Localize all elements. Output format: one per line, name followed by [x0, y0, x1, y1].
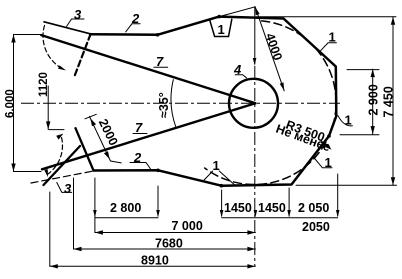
R3500 leader arrow	[321, 141, 330, 149]
wire lower tangent line 7	[42, 103, 255, 169]
angle arc 35deg	[171, 80, 176, 128]
svg-text:4000: 4000	[263, 31, 285, 62]
node V10 dot	[156, 169, 160, 173]
top stub arc arrowhead	[58, 65, 66, 70]
svg-text:6.000: 6.000	[5, 89, 17, 118]
dimension row 7000	[95, 232, 256, 234]
callout 1 top trapezoid	[210, 19, 232, 36]
svg-text:2000: 2000	[96, 117, 121, 148]
svg-text:2050: 2050	[302, 220, 330, 234]
loop outline polygon	[90, 17, 336, 186]
svg-text:8910: 8910	[141, 254, 169, 268]
callout 1 bottom-mid legs	[203, 171, 235, 185]
wire upper tangent line 7	[41, 35, 255, 103]
callout 2 bottom leader	[130, 163, 152, 171]
callout 1 right leader	[338, 116, 352, 126]
thin line V2 to apex	[219, 7, 255, 17]
dimension row 8910	[50, 265, 256, 267]
dimension 2900 vertical	[372, 69, 374, 134]
dashed turning circle R3500	[205, 21, 336, 185]
node V9 dot	[220, 184, 224, 188]
wire vertical center line	[254, 7, 256, 64]
svg-text:7680: 7680	[155, 237, 183, 251]
svg-text:≈35°: ≈35°	[157, 92, 171, 118]
svg-text:2: 2	[133, 150, 142, 165]
bottom extension lines	[94, 178, 96, 233]
svg-text:4: 4	[233, 62, 242, 77]
svg-text:1: 1	[218, 22, 225, 37]
svg-text:7: 7	[156, 54, 164, 69]
svg-text:3: 3	[64, 181, 72, 196]
svg-text:1: 1	[329, 30, 336, 45]
top stub dashed arc	[43, 26, 64, 70]
svg-text:2 800: 2 800	[110, 201, 141, 215]
svg-text:7: 7	[135, 120, 143, 135]
svg-text:1: 1	[213, 158, 220, 173]
R4000 arrow top	[255, 7, 260, 15]
dimension row 2800	[95, 217, 158, 219]
svg-text:1450: 1450	[224, 201, 252, 215]
node V6 dot	[327, 134, 331, 138]
dimension row 1450 1450 2050	[222, 217, 338, 219]
dimension 6000 vertical	[13, 35, 15, 172]
wire horizontal center line	[21, 102, 340, 104]
callout 7 bottom shelf	[133, 133, 147, 135]
svg-text:2 050: 2 050	[298, 201, 329, 215]
bottom stub 45 deg edge	[44, 146, 81, 185]
callout 4 leader	[235, 75, 246, 78]
callout 2 top leader	[126, 24, 140, 32]
svg-text:2 900: 2 900	[367, 84, 381, 115]
dimension 7450 vertical	[392, 17, 394, 186]
bottom stub dashed shallow line 3	[31, 171, 94, 183]
svg-text:3: 3	[74, 7, 82, 22]
dimension row 7680	[74, 248, 256, 250]
callout 7 top shelf	[154, 66, 168, 68]
dimension R4000 line	[255, 7, 284, 91]
bottom stub dashed arc	[47, 137, 62, 175]
callout 3 top leader	[67, 19, 85, 27]
svg-text:1: 1	[325, 155, 332, 170]
svg-text:1450: 1450	[258, 201, 286, 215]
top stub thin line 3	[44, 22, 90, 34]
callout 3 bottom leader	[57, 183, 72, 193]
callout 1 bottom-right leader	[314, 158, 332, 168]
bottom stub arc arrowhead	[56, 134, 63, 140]
bottom stub steep edge	[76, 128, 94, 170]
top stub dashed steep cut line	[74, 34, 91, 78]
svg-text:1: 1	[345, 113, 352, 128]
dimension 1120	[47, 86, 49, 129]
node V1 dot	[156, 33, 160, 37]
arrow on vertical center line	[253, 58, 257, 66]
svg-text:7 000: 7 000	[172, 219, 203, 233]
R4000 arrow bottom	[280, 82, 285, 90]
svg-text:1120: 1120	[38, 72, 50, 97]
svg-text:2: 2	[131, 11, 140, 26]
svg-text:7 450: 7 450	[382, 86, 396, 117]
node V2 dot	[217, 15, 221, 19]
callout 1 top-right leader	[319, 43, 336, 52]
central island circle 4	[229, 79, 278, 128]
dimension 2000	[90, 117, 111, 162]
